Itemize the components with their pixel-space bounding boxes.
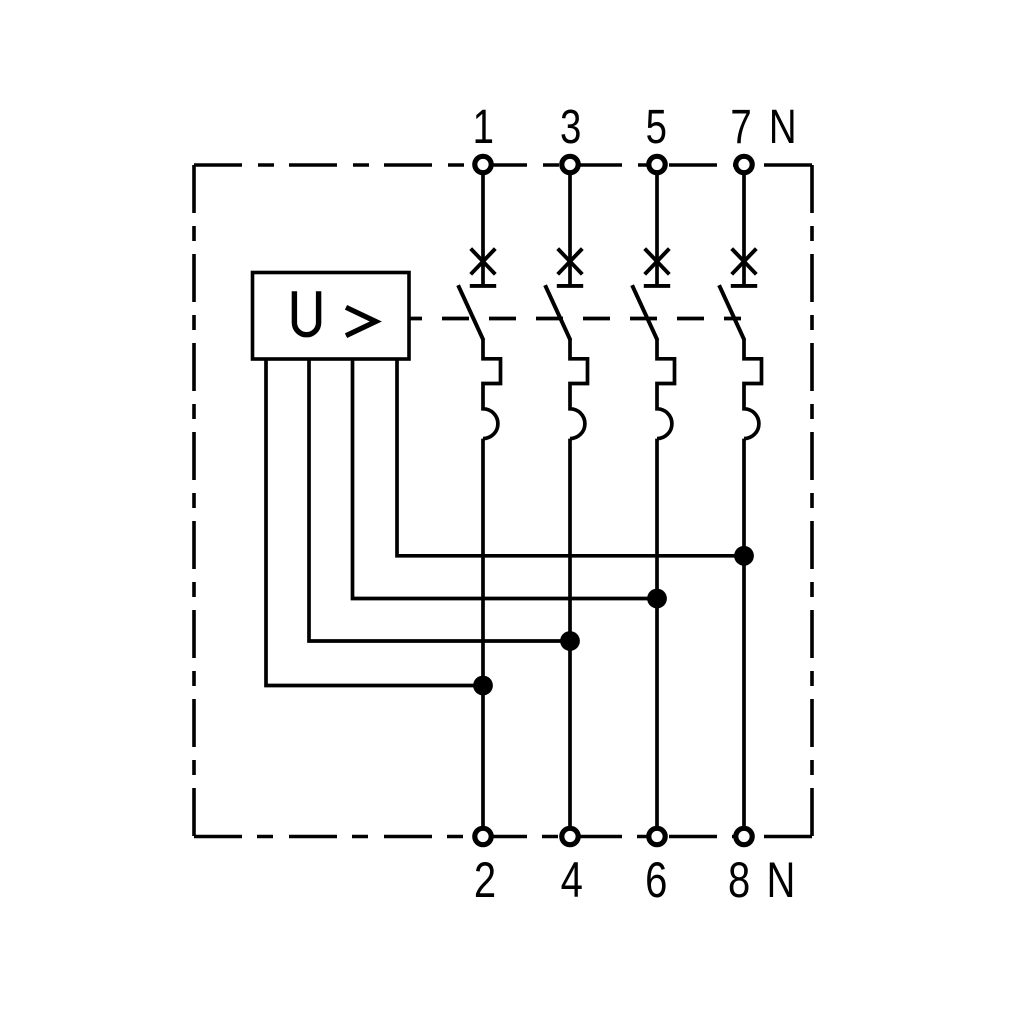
pole 4 bottom terminal 8 — [736, 828, 752, 844]
trip mechanism dashed link line — [409, 317, 741, 321]
pole 4 moving contact blade — [719, 285, 744, 340]
pole 1 breaker function cross X — [471, 249, 496, 275]
pole 2 upper wire — [568, 170, 572, 286]
pole 4 lower wire — [742, 439, 746, 831]
pole 1 fixed contact bar — [470, 284, 496, 288]
pole 3 top terminal 5 — [649, 156, 665, 172]
pole 4 top terminal 7 — [736, 156, 752, 172]
pole 2 lower wire — [568, 439, 572, 831]
svg-text:2: 2 — [474, 852, 496, 908]
label terminal 2 — [474, 852, 496, 908]
pole 1 moving contact blade — [458, 285, 483, 340]
enclosure border left (dash-dot) — [192, 165, 196, 837]
label terminal 1 — [473, 101, 494, 154]
pole 3 breaker function cross X — [645, 249, 670, 275]
pole 2 fixed contact bar — [557, 284, 583, 288]
pole 1 lower wire — [481, 439, 485, 831]
pole 1 junction dot — [473, 676, 493, 696]
pole 4 fixed contact bar — [731, 284, 757, 288]
pole 4 (neutral) upper wire — [742, 170, 746, 286]
label terminal 6 — [645, 852, 667, 908]
label N top — [769, 101, 797, 154]
pole 2 top terminal 3 — [562, 156, 578, 172]
label > (greater-than) — [346, 307, 376, 335]
trip wire from U> to pole 1 junction — [266, 359, 483, 686]
label terminal 5 — [646, 101, 667, 154]
label terminal 8 — [728, 852, 750, 908]
pole 3 lower wire — [655, 439, 659, 831]
pole 3 trip latch and release coil — [657, 339, 675, 439]
pole 1 top terminal 1 — [475, 156, 491, 172]
enclosure border right (dash-dot) — [810, 165, 814, 837]
label U — [294, 291, 318, 335]
pole 3 moving contact blade — [632, 285, 657, 340]
pole 3 bottom terminal 6 — [649, 828, 665, 844]
enclosure border bottom (dash-dot) — [194, 835, 812, 839]
pole 2 breaker function cross X — [558, 249, 583, 275]
pole 1 bottom terminal 2 — [475, 828, 491, 844]
pole 2 junction dot — [560, 631, 580, 651]
trip wire from U> to pole 2 junction — [309, 359, 570, 641]
pole 2 trip latch and release coil — [570, 339, 588, 439]
pole 3 upper wire — [655, 170, 659, 286]
svg-text:8: 8 — [728, 852, 750, 908]
trip wire from U> to pole 4 junction — [397, 359, 744, 556]
label terminal 3 — [560, 101, 581, 154]
svg-text:3: 3 — [560, 101, 581, 154]
pole 3 junction dot — [647, 589, 667, 609]
svg-text:N: N — [767, 852, 796, 908]
svg-text:6: 6 — [645, 852, 667, 908]
enclosure border top (dash-dot) — [194, 163, 812, 167]
svg-text:4: 4 — [561, 852, 583, 908]
trip wire from U> to pole 3 junction — [353, 359, 658, 599]
label terminal 4 — [561, 852, 583, 908]
label N bottom — [767, 852, 796, 908]
label terminal 7 — [730, 101, 751, 154]
svg-text:5: 5 — [646, 101, 667, 154]
pole 4 trip latch and release coil — [744, 339, 762, 439]
svg-text:N: N — [769, 101, 797, 154]
pole 2 bottom terminal 4 — [562, 828, 578, 844]
svg-text:1: 1 — [473, 101, 494, 154]
pole 4 junction dot — [734, 546, 754, 566]
svg-text:7: 7 — [730, 101, 751, 154]
pole 4 breaker function cross X — [732, 249, 757, 275]
pole 1 upper wire — [481, 170, 485, 286]
pole 3 fixed contact bar — [644, 284, 670, 288]
undervoltage release box U> — [253, 273, 410, 360]
pole 2 moving contact blade — [545, 285, 570, 340]
pole 1 trip latch and release coil — [483, 339, 501, 439]
